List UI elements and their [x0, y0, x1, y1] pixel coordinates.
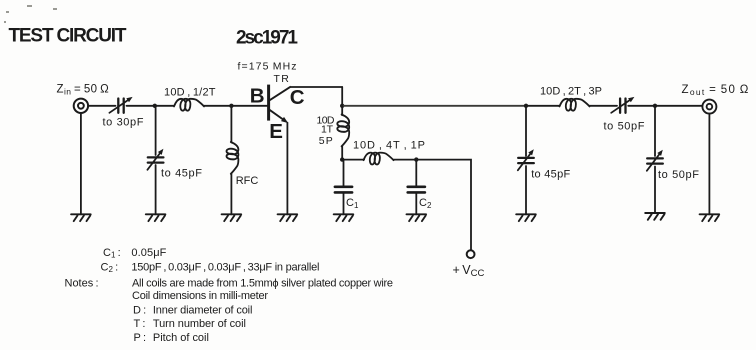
node junction B: [229, 104, 233, 108]
svg-text:to 45pF: to 45pF: [161, 167, 202, 179]
wire VCC feed: [416, 160, 471, 251]
wire node A down: [155, 106, 157, 155]
wire rail to L4: [526, 105, 560, 107]
terminal +VCC: [467, 250, 475, 258]
svg-text:to 45pF: to 45pF: [531, 168, 570, 180]
wire C1 top lead: [343, 160, 345, 187]
node junction C2 top: [414, 157, 418, 161]
ground C1: [334, 214, 354, 221]
inductor RFC: [227, 142, 239, 174]
svg-text:T :: T :: [134, 318, 146, 330]
wire J2 down: [708, 114, 710, 215]
svg-text:to 30pF: to 30pF: [103, 117, 144, 129]
wire J1 down: [80, 113, 82, 214]
svg-text:0.05μF: 0.05μF: [131, 247, 166, 259]
svg-text:10D , 2T , 3P: 10D , 2T , 3P: [540, 86, 602, 98]
node junction D: [524, 104, 528, 108]
ground J1: [71, 214, 91, 221]
svg-text:C: C: [290, 86, 305, 109]
ground CV5: [645, 213, 665, 220]
svg-text:C2: C2: [419, 197, 432, 210]
wire RFC bottom lead: [230, 174, 232, 215]
wire collector drop: [341, 87, 343, 106]
svg-text:Notes :: Notes :: [65, 277, 99, 289]
svg-text:2sc1971: 2sc1971: [236, 28, 298, 49]
ground CV2: [146, 214, 166, 221]
svg-text:Pitch of coil: Pitch of coil: [153, 332, 209, 344]
wire C2 bottom lead: [415, 193, 417, 215]
trimmer capacitor CV5: [647, 157, 663, 159]
inductor L2 10D 1T 5P: [337, 115, 349, 147]
wire node E to J2: [655, 105, 702, 107]
svg-text:Turn number of coil: Turn number of coil: [153, 318, 246, 330]
svg-text:TR: TR: [274, 73, 290, 85]
svg-text:Coil dimensions in milli-meter: Coil dimensions in milli-meter: [132, 290, 268, 302]
capacitor C2: [408, 186, 425, 189]
wire to L3: [342, 159, 364, 161]
node junction L2 bottom: [340, 157, 344, 161]
svg-text:5P: 5P: [319, 135, 333, 147]
wire collector horizontal: [291, 86, 342, 88]
wire L4 to CV4: [590, 105, 618, 107]
node junction A: [153, 104, 157, 108]
svg-text:C1 :: C1 :: [103, 247, 121, 260]
svg-text:to 50pF: to 50pF: [604, 120, 645, 132]
ground emitter: [278, 214, 298, 221]
ground CV3: [516, 214, 536, 221]
svg-text:to 50pF: to 50pF: [658, 169, 699, 181]
svg-text:10D , 1/2T: 10D , 1/2T: [164, 87, 216, 99]
svg-text:All coils are made from 1.5mmϕ: All coils are made from 1.5mmϕ silver pl…: [132, 277, 393, 289]
svg-text:1T: 1T: [321, 123, 334, 135]
svg-text:C1: C1: [346, 197, 359, 210]
node junction C rail: [340, 104, 344, 108]
svg-text:RFC: RFC: [236, 175, 259, 187]
svg-text:D :: D :: [133, 305, 146, 317]
svg-text:150pF , 0.03μF , 0.03μF , 33μF: 150pF , 0.03μF , 0.03μF , 33μF in parall…: [131, 261, 319, 273]
inductor L1 10D 1/2T: [174, 99, 204, 111]
svg-text:Inner diameter of coil: Inner diameter of coil: [153, 305, 253, 317]
wire L1 to base junction: [204, 105, 231, 107]
wire trimmer to L1: [127, 105, 175, 107]
node junction E: [653, 104, 657, 108]
trimmer capacitor CV2: [148, 156, 164, 158]
trimmer capacitor CV1: [117, 99, 119, 113]
inductor L3 10D 4T 1P: [364, 153, 394, 165]
wire main output rail: [342, 105, 526, 107]
inductor L4 10D 2T 3P: [560, 99, 590, 111]
ground J2: [700, 214, 720, 221]
wire CV5 down: [654, 167, 656, 214]
wire emitter down: [286, 123, 288, 215]
svg-text:B: B: [250, 85, 265, 108]
svg-text:Zout = 50 Ω: Zout = 50 Ω: [682, 84, 750, 97]
ground RFC: [222, 214, 242, 221]
wire node D down: [525, 106, 527, 156]
svg-text:+ VCC: + VCC: [453, 263, 485, 279]
transistor TR 2SC1971: [269, 85, 291, 121]
svg-text:Zin = 50 Ω: Zin = 50 Ω: [57, 84, 110, 97]
svg-text:10D , 4T , 1P: 10D , 4T , 1P: [353, 140, 425, 152]
wire RFC top lead: [230, 106, 232, 143]
wire node E down: [654, 106, 656, 156]
wire base lead: [231, 105, 267, 107]
wire CV2 down: [155, 165, 157, 214]
trimmer capacitor CV4: [619, 99, 621, 113]
wire CV3 down: [525, 166, 527, 214]
connector J2 output: [702, 100, 716, 114]
svg-text:E: E: [269, 120, 283, 143]
wire L3 to C2: [394, 159, 417, 161]
wire J1 to trimmer: [88, 105, 115, 107]
wire C1 bottom lead: [343, 193, 345, 215]
trimmer capacitor CV3: [518, 157, 534, 159]
svg-text:TEST CIRCUIT: TEST CIRCUIT: [9, 26, 127, 47]
wire C2 top lead: [415, 160, 417, 187]
ground C2: [407, 214, 427, 221]
svg-text:f=175 MHz: f=175 MHz: [238, 60, 297, 72]
connector J1 input: [74, 99, 88, 113]
wire CV4 to node E: [628, 105, 655, 107]
svg-text:C2 :: C2 :: [101, 261, 119, 274]
svg-text:P :: P :: [134, 332, 147, 344]
capacitor C1: [335, 186, 352, 189]
